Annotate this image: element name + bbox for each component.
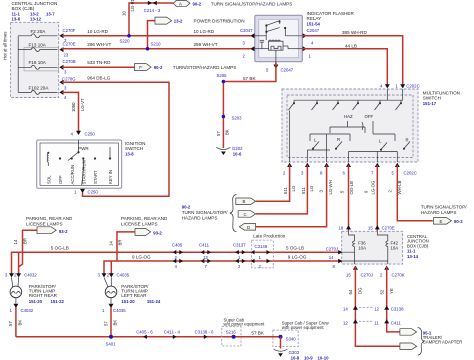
svg-text:LICENSE LAMPS: LICENSE LAMPS (121, 222, 158, 227)
svg-text:Hot at all times: Hot at all times (3, 32, 8, 60)
svg-text:OG-LB: OG-LB (349, 181, 354, 195)
svg-text:93-2: 93-2 (59, 229, 68, 234)
fuse F13 10A (18, 43, 57, 52)
connector C4035 pins 3/2 (left rear lamp) (102, 273, 107, 277)
svg-text:44 LB: 44 LB (345, 43, 357, 48)
svg-text:151-24: 151-24 (147, 299, 161, 304)
svg-text:TURN SIGNAL/STOP/: TURN SIGNAL/STOP/ (421, 204, 468, 209)
wire 14 BR (to right rear park lamp) (19, 230, 37, 276)
wire 2 WH-LB (MFS pin 5 to connector E) (397, 165, 433, 221)
connector C270K pin 2 (CJB lower bottom) (384, 266, 389, 270)
svg-text:511: 511 (283, 187, 288, 194)
wire bus 9 LG-OG (left rear turn feed) (104, 261, 342, 276)
svg-text:LG: LG (309, 185, 314, 191)
svg-text:F16 10A: F16 10A (29, 60, 47, 65)
svg-text:10: 10 (121, 11, 126, 16)
wire bus 5 OG-LB (right rear turn feed) (12, 252, 342, 276)
svg-text:C405 - 6: C405 - 6 (136, 329, 153, 334)
connector C250 pin 1 (ignition switch bottom) (80, 189, 85, 193)
svg-text:START/RUN: START/RUN (82, 160, 87, 184)
indicator flasher relay U1 (255, 11, 355, 62)
wire 296 WH-VT (CJB C270E to relay pin 2) (62, 48, 251, 50)
svg-text:PARKING, REAR AND: PARKING, REAR AND (26, 216, 73, 221)
svg-text:C270J: C270J (326, 247, 338, 252)
svg-text:151-17: 151-17 (423, 101, 437, 106)
svg-text:151-20: 151-20 (121, 299, 135, 304)
wire stub lamp left pin 2 (110, 261, 112, 276)
svg-text:C2047: C2047 (307, 28, 320, 33)
svg-text:BK: BK (224, 129, 229, 135)
svg-text:KEY IN: KEY IN (108, 170, 113, 184)
svg-text:RELAY: RELAY (307, 16, 322, 21)
svg-text:C3149: C3149 (255, 244, 268, 249)
svg-text:533 TN-RD: 533 TN-RD (87, 60, 111, 65)
fuse F102 20A (18, 86, 57, 95)
svg-text:10-9: 10-9 (304, 355, 313, 360)
svg-text:C405: C405 (172, 243, 183, 248)
wire 533 TN-RD (CJB C270B to connector F) (62, 66, 135, 68)
node S220 (129, 3, 173, 36)
svg-text:HAZARD LAMPS: HAZARD LAMPS (182, 216, 218, 221)
svg-text:385 WH-RD: 385 WH-RD (342, 30, 367, 35)
brace 95-1 trailer/camper adapter (418, 328, 425, 356)
wire 511 LG (MFS pin 3 to connector C) (256, 165, 308, 214)
svg-text:93-2: 93-2 (153, 231, 162, 236)
svg-text:OFF: OFF (365, 114, 374, 119)
connector C270E pins 18/15 (CJB lower top) (349, 226, 378, 232)
svg-text:WH-LB: WH-LB (397, 181, 402, 195)
svg-text:13-2: 13-2 (174, 19, 183, 24)
wire 52 YE (CJB to trailer adapter) (387, 267, 400, 332)
svg-text:14: 14 (329, 255, 334, 260)
svg-text:S210: S210 (151, 42, 162, 47)
svg-text:57 BK: 57 BK (243, 76, 256, 81)
svg-text:LG: LG (291, 185, 296, 191)
svg-text:C3137: C3137 (233, 243, 246, 248)
wire 57 BK (right rear lamp ground) (15, 307, 17, 337)
connector C2047 pin 2 (relay left bottom) (250, 46, 254, 51)
svg-text:BK: BK (113, 320, 118, 326)
connector F to 90-2 turn/stop/hazard lamps (135, 64, 152, 71)
svg-text:S205: S205 (217, 73, 228, 78)
connector C270F pin 3 (59, 28, 75, 43)
svg-text:Late Production: Late Production (253, 233, 286, 238)
svg-text:LG-RD: LG-RD (130, 0, 135, 12)
svg-text:RIGHT REAR: RIGHT REAR (29, 293, 58, 298)
svg-text:13-12: 13-12 (30, 17, 42, 22)
connector C202C pins 4 and 1 (multifunction switch top) (385, 84, 390, 88)
svg-text:57: 57 (8, 321, 13, 326)
svg-text:23: 23 (64, 53, 69, 58)
wire 964 DB-LG (CJB C270G to ignition switch C250-1) (62, 82, 169, 196)
inline connector C214 pin 3 (148, 1, 152, 5)
svg-text:C2047: C2047 (281, 68, 294, 73)
ground G202 (216, 147, 230, 149)
svg-text:15: 15 (368, 226, 373, 231)
svg-text:G202: G202 (232, 146, 243, 151)
svg-text:TURN SIGNAL/STOP/HAZARD LAMPS: TURN SIGNAL/STOP/HAZARD LAMPS (211, 1, 293, 6)
svg-text:C202C: C202C (404, 170, 417, 175)
multifunction switch SW2 (282, 89, 460, 162)
svg-text:12: 12 (374, 307, 379, 312)
node S210 (148, 21, 156, 49)
svg-text:10-6: 10-6 (233, 151, 242, 156)
svg-text:C250: C250 (85, 132, 96, 137)
svg-text:TURN/STOP/HAZARD LAMPS: TURN/STOP/HAZARD LAMPS (173, 65, 236, 70)
svg-text:52: 52 (380, 289, 385, 294)
svg-text:511: 511 (301, 187, 306, 194)
splice S216 (super cab w/o power equipment) (222, 326, 241, 346)
svg-text:57 BK: 57 BK (251, 330, 264, 335)
svg-text:5 OG-LB: 5 OG-LB (286, 245, 304, 250)
connector C4035 pin 1 (109, 304, 114, 308)
svg-text:13-14: 13-14 (407, 254, 419, 259)
svg-text:C411: C411 (391, 320, 402, 325)
svg-text:LEFT REAR: LEFT REAR (121, 293, 147, 298)
connector B (236, 198, 256, 205)
svg-text:964 DB-LG: 964 DB-LG (87, 76, 110, 81)
connector C2047 pin 5 (relay bottom) (273, 65, 278, 69)
wire 64 DG (CJB to trailer adapter) (355, 267, 399, 347)
svg-text:S401: S401 (106, 342, 117, 347)
connector E to 90-2 turn signal/stop/hazard lamps (434, 218, 452, 225)
svg-text:12: 12 (343, 320, 348, 325)
wire 385 WH-RD (relay pin 4 to multifunction switch pin 1) (302, 36, 402, 88)
svg-text:D: D (247, 225, 250, 230)
svg-text:151-20: 151-20 (29, 299, 43, 304)
svg-text:C270F: C270F (63, 28, 76, 33)
svg-text:w/o power equipment: w/o power equipment (224, 322, 266, 327)
svg-text:C270E: C270E (382, 226, 395, 231)
svg-text:5 OG-LB: 5 OG-LB (51, 245, 69, 250)
svg-text:C3138: C3138 (391, 307, 404, 312)
lamp park/stop/turn right rear (10, 277, 22, 303)
svg-text:DG: DG (358, 287, 363, 294)
fuse F36 10A (342, 231, 367, 264)
svg-text:13-6: 13-6 (12, 17, 21, 22)
wire 3 LG-WH (MFS pin 8 to connector D) (256, 165, 327, 227)
svg-text:C4032: C4032 (21, 308, 34, 313)
late production connector C3149 (252, 240, 274, 268)
svg-text:HAZ: HAZ (344, 114, 353, 119)
svg-text:A: A (179, 1, 182, 6)
svg-text:BOX (CJB): BOX (CJB) (12, 6, 35, 11)
svg-text:13-8: 13-8 (125, 152, 134, 157)
svg-text:C250: C250 (88, 190, 99, 195)
svg-text:C2047: C2047 (240, 28, 253, 33)
svg-text:LICENSE LAMPS: LICENSE LAMPS (26, 222, 63, 227)
svg-text:C270B: C270B (63, 59, 76, 64)
svg-text:LG-OG: LG-OG (370, 180, 375, 195)
svg-text:296 WH-VT: 296 WH-VT (87, 42, 111, 47)
svg-text:with power equipment: with power equipment (282, 325, 325, 330)
connector to 95-1 trailer/camper adapter (upper) (400, 329, 417, 336)
connector C (238, 211, 256, 218)
svg-text:S340: S340 (286, 336, 297, 341)
svg-text:S203: S203 (232, 115, 243, 120)
wire 14 BR (to left rear park lamp) (117, 232, 135, 261)
svg-text:151-22: 151-22 (51, 299, 65, 304)
inline connector C411 pins 12/11 (353, 319, 358, 323)
svg-text:SOL: SOL (47, 175, 52, 184)
svg-text:F102 20A: F102 20A (29, 86, 50, 91)
wire 9 LG-OG (MFS pin 7 down to CJB C270E-15) (376, 165, 378, 226)
svg-text:14: 14 (109, 241, 114, 246)
connector C270G pin 3 (59, 77, 76, 91)
svg-text:57: 57 (103, 321, 108, 326)
svg-text:TURN SIGNAL/STOP/: TURN SIGNAL/STOP/ (182, 210, 229, 215)
svg-text:LG-WH: LG-WH (328, 180, 333, 194)
inline connector C3138 pins 14/12 (353, 306, 358, 310)
svg-text:F: F (139, 65, 142, 70)
node S401 (109, 335, 113, 339)
central junction box CJB (bottom-right) (342, 231, 429, 264)
svg-text:CAMPER ADAPTER: CAMPER ADAPTER (423, 340, 463, 345)
svg-text:SWITCH: SWITCH (125, 146, 143, 151)
wire 57 BK (relay pin 5 to ground G202) (223, 62, 276, 148)
svg-text:90-2: 90-2 (182, 205, 191, 210)
svg-text:C202C: C202C (406, 84, 419, 89)
connector C202C pins 2 3 8 6 7 5 (multifunction switch bottom) (287, 163, 292, 167)
svg-text:S216: S216 (226, 329, 237, 334)
svg-text:C411 - 4: C411 - 4 (164, 329, 181, 334)
svg-text:HAZARD LAMPS: HAZARD LAMPS (421, 210, 457, 215)
connector C250 pin 4 (ignition switch top) (76, 131, 81, 135)
connector 13-2 power distribution (155, 17, 172, 24)
svg-text:START: START (93, 170, 98, 184)
svg-text:C270K: C270K (392, 273, 405, 278)
svg-text:90-2: 90-2 (154, 65, 163, 70)
connector C4032 pins 3/2 (right rear lamp) (9, 273, 14, 277)
svg-text:10-10: 10-10 (318, 355, 330, 360)
svg-text:10A: 10A (391, 245, 399, 250)
connector C270B pin 3 (59, 59, 75, 75)
svg-text:ACC/RUN: ACC/RUN (70, 165, 75, 185)
svg-text:R: R (406, 138, 409, 143)
svg-text:E: E (440, 219, 443, 224)
svg-text:C411: C411 (199, 243, 210, 248)
lamp park/stop/turn left rear (104, 277, 117, 303)
svg-text:F2 20A: F2 20A (31, 29, 47, 34)
wire stub lamp right pin 2 (18, 252, 20, 267)
svg-text:PWR: PWR (78, 146, 89, 151)
node S203 (222, 115, 226, 119)
svg-text:C3138 - 6: C3138 - 6 (195, 329, 214, 334)
wire 10 LG-RD (CJB C270F to relay pin 3) (62, 35, 251, 37)
multifunction switch internals (289, 89, 411, 162)
wire 1050 LG-VT (CJB F102 to ignition switch C250-4) (62, 92, 79, 132)
connector to 95-1 trailer/camper adapter (lower) (400, 343, 417, 350)
brace and 90-2 turn signal/stop hazard lamps label (230, 195, 237, 232)
svg-text:1050: 1050 (71, 102, 76, 112)
svg-text:15: 15 (346, 273, 351, 278)
svg-text:YE: YE (389, 288, 394, 294)
svg-text:C4035: C4035 (117, 273, 130, 278)
svg-text:13-7: 13-7 (46, 12, 55, 17)
connector C2047 pin 1 (relay right bottom) (303, 46, 307, 51)
connector D (239, 224, 255, 231)
svg-text:SWITCH: SWITCH (423, 96, 441, 101)
wire 57 BK ground bus (16, 336, 281, 338)
svg-text:C: C (244, 212, 247, 217)
connector C250 pin 4 feed (59, 90, 67, 100)
svg-text:BR: BR (23, 238, 28, 244)
connector C4032 pin 1 (13, 304, 18, 308)
svg-text:10 LG-RD: 10 LG-RD (194, 29, 215, 34)
relay internal circuit (255, 21, 302, 62)
svg-text:S220: S220 (120, 39, 131, 44)
wire 511 LG (MFS pin 2 to connector B) (256, 165, 290, 201)
svg-text:9 LG-OG: 9 LG-OG (288, 255, 307, 260)
svg-text:C214 - 3: C214 - 3 (144, 8, 161, 13)
ground G303 (274, 349, 288, 351)
svg-text:296 WH-VT: 296 WH-VT (194, 42, 218, 47)
node S205 (222, 80, 226, 84)
svg-text:18: 18 (339, 226, 344, 231)
svg-text:PARKING, REAR AND: PARKING, REAR AND (121, 216, 168, 221)
svg-text:C4035: C4035 (113, 308, 126, 313)
fuse F42 10A (342, 231, 399, 264)
ignition switch SW1 (37, 140, 146, 188)
fuse F2 20A (18, 29, 57, 38)
svg-text:14: 14 (13, 239, 18, 244)
ignition switch internals (47, 140, 111, 185)
svg-text:OFF: OFF (58, 175, 63, 184)
svg-text:10 LG-RD: 10 LG-RD (87, 29, 108, 34)
svg-text:11: 11 (374, 320, 379, 325)
svg-text:R: R (337, 137, 340, 142)
wire 44 LB (relay pin 1 to multifunction switch pin 4) (302, 49, 387, 88)
svg-text:POWER DISTRIBUTION: POWER DISTRIBUTION (194, 19, 245, 24)
svg-text:64: 64 (348, 289, 353, 294)
splice S340 (super cab / super crew with power equipment) (273, 330, 298, 347)
svg-text:10-8: 10-8 (291, 355, 300, 360)
svg-text:10A: 10A (358, 245, 366, 250)
svg-text:C270J: C270J (361, 273, 373, 278)
svg-text:F13 10A: F13 10A (29, 43, 47, 48)
svg-text:14: 14 (343, 307, 348, 312)
svg-text:G303: G303 (289, 350, 300, 355)
svg-text:C270G: C270G (62, 77, 76, 82)
connector A to 90-2 turn signal/stop/hazard lamps (173, 0, 190, 6)
svg-text:B: B (243, 199, 246, 204)
svg-text:9 LG-OG: 9 LG-OG (132, 255, 151, 260)
wire 5 OG-LB (MFS pin 6 down to CJB C270E-18) (348, 165, 350, 226)
svg-text:C270E: C270E (63, 42, 76, 47)
svg-text:BK: BK (18, 320, 23, 326)
svg-text:C4032: C4032 (24, 273, 37, 278)
svg-text:90-2: 90-2 (454, 219, 463, 224)
wire 57 BK (left rear lamp ground) (110, 307, 112, 337)
connector C270E pin 23 (59, 42, 75, 58)
fuse F16 10A (18, 60, 57, 69)
svg-text:57: 57 (216, 131, 221, 136)
central junction box CJB (top-left) (3, 1, 59, 98)
connector C270J pin 15 (CJB lower bottom) (353, 266, 358, 270)
svg-text:LG-VT: LG-VT (80, 98, 85, 111)
svg-text:90-2: 90-2 (193, 1, 202, 6)
svg-text:151-54: 151-54 (307, 21, 321, 26)
wire S340 to ground G303 (280, 337, 282, 349)
svg-text:BR: BR (118, 240, 123, 246)
